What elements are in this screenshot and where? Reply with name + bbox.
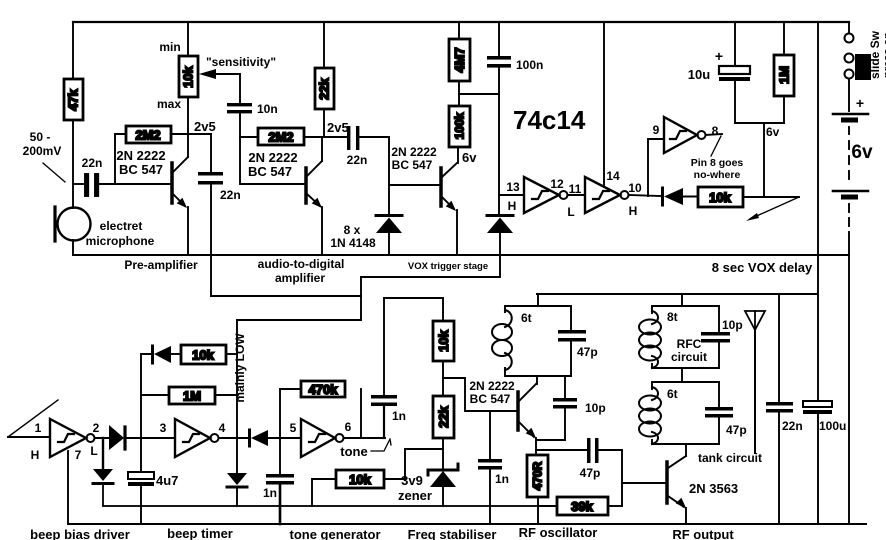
wire 4M7 to 100k [458, 81, 460, 106]
battery 6v [833, 79, 873, 255]
wire top supply rail [73, 21, 849, 23]
svg-text:BC 547: BC 547 [119, 162, 163, 177]
svg-text:max: max [157, 97, 181, 111]
svg-text:2: 2 [93, 421, 100, 435]
wire Q1 collector up [187, 97, 189, 157]
wire 10k right to 6v node [743, 196, 799, 198]
label 2N 2222 BC 547 Q4 [469, 379, 515, 406]
wire Q3 emitter down [456, 210, 458, 255]
diode 1N4148 first [376, 216, 402, 256]
wire Q4 emitter node [535, 438, 537, 455]
label 50-200mV [23, 130, 62, 158]
wire 470k right leg [360, 389, 362, 438]
svg-text:47k: 47k [66, 88, 81, 110]
svg-text:6v: 6v [766, 125, 780, 139]
transistor Q1 [172, 157, 188, 208]
svg-text:circuit: circuit [671, 350, 707, 364]
svg-text:1M: 1M [777, 66, 792, 84]
svg-text:min: min [159, 40, 180, 54]
svg-text:22n: 22n [347, 153, 368, 167]
svg-text:22n: 22n [782, 419, 803, 433]
potentiometer 10k sensitivity [179, 22, 198, 97]
capacitor 10p oscillator [553, 376, 606, 440]
resistor 470R [527, 455, 548, 524]
svg-text:2N 3563: 2N 3563 [689, 481, 738, 496]
wire node to Q3 base [389, 184, 440, 186]
svg-text:2M2: 2M2 [268, 130, 293, 145]
svg-text:47p: 47p [577, 345, 598, 359]
svg-text:6t: 6t [521, 311, 532, 325]
resistor 2M2 first [126, 126, 171, 143]
capacitor 22n input [82, 156, 103, 196]
svg-text:beep timer: beep timer [167, 526, 233, 540]
wire 10u-1M link [735, 122, 784, 124]
capacitor 1n freq [478, 411, 509, 524]
wire pin 7 to ground rail [67, 451, 69, 524]
op-amp U4 schmitt inverter 3-4 [175, 419, 219, 457]
svg-text:22k: 22k [317, 77, 332, 99]
wire 2M2 second left [240, 136, 258, 138]
svg-text:9: 9 [653, 123, 660, 137]
svg-text:10k: 10k [181, 65, 196, 87]
svg-text:10p: 10p [722, 318, 743, 332]
wire mainly LOW vertical [236, 320, 238, 473]
resistor 10k freq [433, 298, 454, 361]
wire 47k top lead [72, 22, 74, 79]
wire beep input [8, 436, 50, 438]
inductor 6t oscillator tank [492, 306, 571, 376]
pot wiper arrow [199, 69, 240, 103]
svg-text:RF output: RF output [672, 527, 734, 540]
svg-text:2M2: 2M2 [135, 128, 160, 143]
svg-text:2N 2222: 2N 2222 [391, 145, 437, 159]
svg-text:H: H [508, 199, 517, 213]
wire beep signal rail [103, 505, 557, 507]
transistor Q4 freq stabiliser [518, 384, 536, 438]
resistor 100k [449, 106, 470, 147]
svg-text:2v5: 2v5 [194, 119, 216, 134]
svg-text:RF oscillator: RF oscillator [519, 525, 598, 540]
leader tone [371, 439, 391, 451]
svg-text:2N 2222: 2N 2222 [248, 150, 297, 165]
antenna [745, 311, 765, 453]
wire VOX feed jog [237, 277, 361, 320]
svg-text:10k: 10k [709, 190, 731, 205]
capacitor 4u7 electrolytic [128, 472, 178, 524]
svg-text:H: H [629, 204, 638, 218]
label 2N 2222 BC 547 Q3 [391, 145, 437, 172]
wire 22n output down to lower rail [210, 185, 212, 297]
wire 22k bottom to zener [442, 438, 444, 468]
inductor 8t RFC [639, 306, 719, 368]
svg-text:470R: 470R [531, 461, 545, 490]
wire right bus [817, 22, 819, 401]
resistor 1M [774, 22, 794, 123]
wire U6 input branch [648, 139, 664, 196]
wire lower feed rail [211, 295, 361, 297]
wire tone link rail [384, 297, 443, 299]
svg-text:39k: 39k [571, 499, 593, 514]
wire pin14 supply [603, 22, 605, 187]
wire Q4 collector to tank [536, 376, 538, 384]
svg-text:3v9: 3v9 [401, 473, 423, 488]
wire 10k right to zener node [384, 449, 443, 479]
svg-text:10k: 10k [192, 348, 214, 363]
capacitor 22n decoupling [766, 294, 803, 524]
svg-text:4u7: 4u7 [156, 473, 178, 488]
wire U3 output [95, 437, 111, 439]
capacitor 47p oscillator tank [558, 306, 598, 376]
wire 6v node vertical [763, 123, 765, 197]
wire U4 output [219, 437, 250, 439]
svg-text:tone: tone [340, 444, 367, 459]
capacitor 100u electrolytic [803, 401, 846, 524]
capacitor 10u electrolytic [688, 22, 750, 123]
svg-text:8t: 8t [667, 310, 678, 324]
wire RF section top rail [537, 293, 817, 295]
svg-text:10n: 10n [257, 102, 278, 116]
svg-text:100u: 100u [819, 419, 846, 433]
svg-text:47p: 47p [580, 466, 601, 480]
label audio-to-digital amplifier [258, 257, 345, 285]
wire output branch down [102, 438, 104, 469]
resistor 10k feedback [181, 345, 226, 364]
resistor 470k [301, 381, 345, 397]
svg-text:RFC: RFC [677, 337, 702, 351]
capacitor 1n tone output [371, 298, 406, 438]
wire Q2 emitter down [321, 207, 323, 255]
arrow annotation [746, 197, 799, 221]
svg-text:12: 12 [550, 177, 564, 191]
svg-text:microphone: microphone [86, 234, 155, 248]
svg-text:47p: 47p [726, 423, 747, 437]
wire 10n bottom to Q2 base [240, 113, 305, 184]
wire mic bottom to rail [72, 240, 74, 255]
wire 10k left leg [312, 479, 336, 506]
svg-text:3: 3 [160, 421, 167, 435]
slide switch [845, 22, 872, 80]
wire 2M2 left to base [115, 134, 126, 184]
svg-text:4M7: 4M7 [452, 47, 467, 72]
svg-text:100n: 100n [516, 58, 543, 72]
svg-text:10: 10 [628, 181, 642, 195]
svg-text:+: + [856, 95, 864, 111]
wire RFC top stub [681, 294, 683, 306]
wire tank1 top stub [537, 294, 539, 306]
diode timer shunt on mainly LOW line [227, 473, 247, 506]
input diagonal annotation [8, 400, 58, 437]
diode beep series [109, 425, 175, 450]
svg-text:22n: 22n [220, 188, 241, 202]
capacitor 22n coupling second [347, 126, 368, 167]
svg-text:+: + [715, 48, 723, 64]
wire pin 8 stub [706, 134, 723, 135]
svg-text:50 -: 50 - [30, 130, 51, 144]
wire inverter U1 input [499, 194, 524, 196]
wire U2 output [629, 195, 662, 196]
svg-text:Freq stabiliser: Freq stabiliser [408, 527, 497, 540]
label 2N 2222 BC 547 Q1 [116, 148, 165, 177]
op-amp U1 schmitt inverter 13-12 [524, 177, 568, 213]
svg-text:2N 2222: 2N 2222 [116, 148, 165, 163]
svg-text:VOX trigger stage: VOX trigger stage [408, 261, 488, 272]
capacitor 47p output tank [705, 382, 747, 444]
wire Q2 collector to 22k [321, 137, 323, 161]
svg-text:audio-to-digital: audio-to-digital [258, 257, 345, 271]
svg-text:10k: 10k [436, 329, 451, 351]
wire top-section ground rail [73, 254, 849, 256]
svg-text:Pre-amplifier: Pre-amplifier [124, 258, 198, 272]
resistor 22k freq [433, 396, 454, 438]
label Pin 8 goes no-where [691, 157, 744, 181]
label RFC circuit [671, 337, 707, 364]
svg-text:press on: press on [882, 32, 886, 78]
transistor Q5 2N3563 [667, 444, 686, 524]
svg-text:7: 7 [75, 448, 82, 462]
svg-text:amplifier: amplifier [275, 271, 325, 285]
label electret microphone [86, 219, 155, 248]
svg-text:zener: zener [398, 488, 432, 503]
wire coupling node down [621, 450, 623, 506]
svg-text:4: 4 [219, 421, 226, 435]
wire 47k bottom to microphone [72, 120, 74, 208]
resistor 10k tone out [336, 470, 384, 488]
wire Q1 emitter down [187, 207, 189, 255]
wire battery negative down right edge [848, 255, 850, 524]
zener diode 3v9 [428, 464, 458, 506]
svg-text:200mV: 200mV [23, 144, 62, 158]
wire 100n branch down [498, 68, 500, 214]
leader line for 50-200mV [43, 163, 65, 182]
svg-text:100k: 100k [453, 112, 467, 139]
svg-text:mainly LOW: mainly LOW [233, 333, 247, 403]
diode 1N4148 second [487, 216, 513, 256]
svg-text:14: 14 [606, 169, 620, 183]
diode beep shunt [93, 469, 557, 506]
wire 22n2 to diode node [359, 137, 389, 214]
svg-text:H: H [31, 448, 40, 462]
wire RFC to tank2 stub [681, 368, 683, 382]
diode timer [250, 430, 302, 446]
svg-text:10p: 10p [585, 401, 606, 415]
wire 4M7 link to 100n branch [459, 93, 499, 95]
svg-text:beep bias driver: beep bias driver [30, 527, 130, 540]
svg-text:1M: 1M [183, 389, 201, 404]
transistor Q2 [306, 161, 322, 208]
resistor 1M timer [141, 387, 237, 404]
capacitor 10p RFC [701, 306, 743, 368]
svg-text:L: L [567, 205, 574, 219]
capacitor 1n tone input [263, 474, 294, 524]
svg-text:2v5: 2v5 [327, 120, 349, 135]
svg-text:6v: 6v [462, 150, 477, 165]
svg-text:1n: 1n [392, 409, 406, 423]
svg-text:Pin 8 goes: Pin 8 goes [691, 157, 744, 169]
svg-text:1N 4148: 1N 4148 [330, 236, 376, 250]
wire Q5 base [622, 482, 666, 484]
svg-text:74c14: 74c14 [513, 105, 586, 135]
svg-text:470k: 470k [309, 382, 339, 397]
diode VOX delay [663, 188, 699, 205]
svg-text:6: 6 [345, 420, 352, 434]
svg-text:22k: 22k [436, 405, 451, 427]
capacitor 10n [227, 102, 278, 116]
svg-text:1n: 1n [495, 472, 509, 486]
svg-text:10k: 10k [349, 472, 371, 487]
wire 470k left leg [280, 389, 301, 474]
op-amp U3 schmitt inverter 1-2 [50, 419, 95, 457]
node mic/cap junction [73, 183, 85, 185]
svg-text:tone generator: tone generator [289, 527, 380, 540]
capacitor 47p coupling [580, 438, 622, 480]
svg-text:BC 547: BC 547 [470, 392, 511, 406]
leader pin8 note [711, 136, 721, 156]
svg-text:22n: 22n [82, 156, 103, 170]
svg-text:"sensitivity": "sensitivity" [206, 55, 276, 69]
svg-text:13: 13 [506, 180, 520, 194]
wire bottom ground rail [68, 523, 866, 525]
svg-text:slide Sw: slide Sw [868, 30, 882, 79]
capacitor 22n preamp output [198, 134, 241, 202]
wire 2M2 right to collector node [171, 133, 211, 135]
op-amp U2 schmitt inverter 11-10 [585, 177, 629, 213]
svg-text:electret: electret [100, 219, 143, 233]
wire base feed Q4 [443, 378, 517, 411]
svg-text:11: 11 [569, 182, 582, 196]
op-amp U5 schmitt inverter 5-6 [301, 419, 344, 457]
VOX label box [361, 255, 500, 277]
resistor 2M2 second [258, 128, 304, 145]
svg-text:L: L [90, 444, 97, 458]
resistor 39k [538, 497, 622, 515]
svg-text:6v: 6v [851, 142, 873, 163]
svg-text:1: 1 [35, 421, 42, 435]
svg-text:8: 8 [712, 124, 719, 138]
svg-text:BC 547: BC 547 [392, 158, 433, 172]
label 2N 2222 BC 547 Q2 [248, 150, 298, 179]
wire U1 out to U2 in [568, 194, 586, 196]
wire 10k-22k junction [442, 361, 444, 396]
svg-text:10u: 10u [688, 67, 710, 82]
svg-text:tank circuit: tank circuit [698, 451, 762, 465]
svg-text:2N 2222: 2N 2222 [469, 379, 515, 393]
svg-text:1n: 1n [263, 486, 277, 500]
capacitor 100n [487, 22, 543, 72]
svg-text:6t: 6t [667, 387, 678, 401]
wire 10k to mainly LOW line [226, 353, 237, 355]
transistor Q3 VOX trigger [441, 163, 457, 211]
svg-text:5: 5 [290, 421, 297, 435]
feedback chain corner [141, 354, 152, 472]
svg-text:no-where: no-where [694, 169, 741, 181]
inductor 6t output tank [639, 382, 719, 444]
resistor 10k delay [698, 187, 743, 207]
wire 22n to Q1 base [98, 183, 171, 185]
resistor 4M7 [449, 22, 470, 81]
resistor 47k [64, 79, 83, 120]
diode feedback [153, 346, 182, 363]
op-amp U6 schmitt inverter 9-8 [664, 117, 706, 153]
svg-text:8 sec VOX delay: 8 sec VOX delay [712, 260, 813, 275]
label 3v9 zener [398, 473, 432, 503]
wire 2M2 second right to 2v5 node [304, 136, 347, 138]
electret microphone [55, 207, 91, 241]
svg-text:8 x: 8 x [344, 223, 361, 237]
wire 100k bottom to Q3 collector [457, 147, 459, 163]
wire U5 output [344, 437, 386, 439]
label 8 x 1N 4148 [330, 223, 376, 250]
svg-text:BC 547: BC 547 [248, 164, 292, 179]
resistor 22k [315, 22, 334, 137]
